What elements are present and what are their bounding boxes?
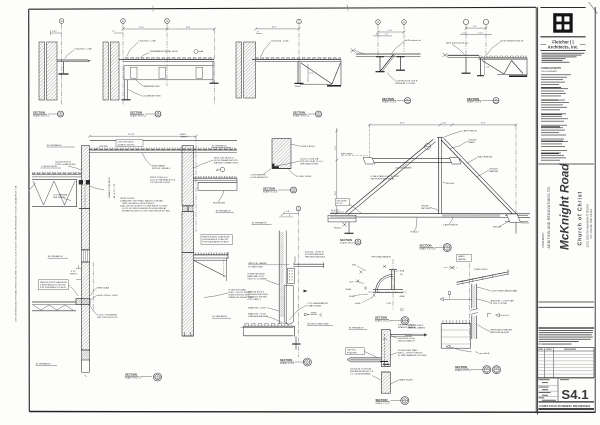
svg-text:7¼": 7¼" (385, 33, 389, 36)
svg-text:EL SEE PLAN: EL SEE PLAN (249, 266, 263, 269)
svg-text:SECTION: SECTION (382, 97, 394, 101)
X marks (360, 271, 363, 274)
dims (284, 212, 299, 214)
svg-text:SECTION: SECTION (467, 97, 479, 101)
svg-text:SECTION: SECTION (375, 316, 387, 320)
masonry wall left (tall) (81, 146, 89, 250)
svg-text:VERIFY: VERIFY (70, 274, 78, 276)
high roof deck corrugated (90, 148, 237, 150)
svg-text:SCALE: 1/2"=1'-0": SCALE: 1/2"=1'-0" (455, 369, 472, 372)
svg-text:RAFTER: RAFTER (458, 258, 467, 261)
svg-text:NOTE ℞ DETAILS: NOTE ℞ DETAILS (152, 167, 171, 170)
svg-text:PILASTER: PILASTER (347, 351, 357, 354)
svg-text:ANCHOR EA SIDE: ANCHOR EA SIDE (491, 331, 510, 334)
grid bubble C1 (297, 19, 302, 24)
svg-text:LATE PURLIN: LATE PURLIN (463, 129, 477, 132)
dim tick small (114, 32, 123, 34)
svg-text:SECTION: SECTION (293, 110, 305, 114)
svg-text:W21x44 BM: W21x44 BM (213, 202, 225, 204)
svg-text:O.C. (2) MIN EMBED: O.C. (2) MIN EMBED (350, 374, 371, 376)
bond beam pattern segment (81, 250, 89, 262)
svg-text:7¼": 7¼" (112, 30, 116, 33)
svg-text:EL PER ARCH: EL PER ARCH (216, 209, 231, 212)
beam end + column below (294, 326, 296, 336)
svg-text:dbl ℞ 5/16x4 - LLBO: dbl ℞ 5/16x4 - LLBO (98, 294, 118, 297)
grid bubble A1 (59, 19, 64, 24)
svg-text:W10x12: W10x12 (411, 231, 420, 233)
svg-text:BEAM BEYOND: BEAM BEYOND (144, 85, 160, 88)
svg-text:℞ VERT BARS AS OCCURS: ℞ VERT BARS AS OCCURS (398, 354, 427, 357)
roof deck (corrugated) (123, 57, 214, 59)
truss webs (482, 61, 504, 75)
svg-text:L6x4x5/16 - (LLB): L6x4x5/16 - (LLB) (271, 41, 289, 43)
wall continues down (182, 212, 194, 253)
left top chord (346, 140, 434, 213)
hanger stem (63, 62, 65, 73)
dim 8.5 verif (76, 268, 81, 270)
corbel bracket (194, 259, 227, 261)
beam stems (379, 56, 381, 71)
detail 13: window head/sill wall section (241, 206, 334, 366)
post W6x9 (297, 62, 299, 84)
svg-text:ST. LOUIS, MO 63124: ST. LOUIS, MO 63124 (589, 208, 593, 238)
roofing line (90, 139, 237, 141)
svg-text:EA. JOIST (4) PLCS: EA. JOIST (4) PLCS (98, 316, 118, 319)
corrugated canopy deck right (479, 56, 528, 58)
svg-text:1'-0": 1'-0" (286, 211, 291, 213)
horizontal tie member (368, 158, 461, 160)
wall segment (182, 253, 194, 337)
svg-text:BRNG: BRNG (469, 142, 476, 144)
boxed label remove slab edge (39, 280, 69, 290)
svg-text:STEEL DECK: STEEL DECK (474, 269, 488, 271)
title block frame (538, 7, 596, 415)
svg-text:S4.1: S4.1 (561, 387, 588, 402)
svg-text:℞ TYP: ℞ TYP (337, 202, 344, 205)
masonry wall W2 (103, 42, 108, 100)
boxed label remove slab (201, 235, 233, 245)
consultant listing lines (541, 74, 571, 160)
svg-text:5/16 GUSS: 5/16 GUSS (337, 200, 348, 202)
grid bubble E1 (463, 19, 468, 24)
svg-text:SECTION: SECTION (376, 398, 388, 402)
svg-text:13'-10": 13'-10" (128, 134, 135, 136)
svg-text:9'-0": 9'-0" (481, 123, 486, 125)
grid bubble B1 (121, 19, 126, 24)
bottom bond block (81, 350, 89, 360)
svg-text:SECTION: SECTION (455, 365, 467, 369)
svg-text:L6x4x5/16 - LLBO: L6x4x5/16 - LLBO (139, 41, 157, 43)
left end beam (328, 215, 356, 222)
break marks (471, 309, 478, 315)
anchor bolt dashed (384, 334, 386, 366)
svg-text:EL PER ARCH: EL PER ARCH (36, 362, 51, 365)
boxed gable rafter label (457, 254, 472, 261)
svg-text:℞ 5/16 TYPICAL: ℞ 5/16 TYPICAL (491, 302, 508, 305)
wall end (182, 335, 194, 337)
grid dashdot (92, 262, 94, 312)
detail 7: roof / wall section (tall left) (32, 134, 237, 250)
section flag 5A (220, 167, 225, 172)
svg-text:7¼": 7¼" (376, 33, 380, 36)
svg-text:(2) L6x4 JAMBS: (2) L6x4 JAMBS (396, 167, 412, 170)
svg-text:ELEVATION UNITS. DO NOT DISTUR: ELEVATION UNITS. DO NOT DISTURB GROUT BE… (122, 210, 171, 213)
deck line (356, 53, 421, 55)
ridge post W10x49 (438, 138, 440, 214)
svg-text:SPAN EL VARIES: SPAN EL VARIES (408, 327, 426, 330)
grid bubble D2 (402, 20, 407, 25)
detail 1: wall/angle section (33, 19, 92, 118)
right small flags (487, 313, 489, 317)
svg-text:SCALE: 3/4"=1'-0": SCALE: 3/4"=1'-0" (293, 114, 310, 117)
dim 13'-10 field verify (90, 135, 196, 137)
svg-text:SCALE: 3"=1'-0": SCALE: 3"=1'-0" (263, 190, 278, 193)
svg-text:FOR PLACEMENT OF dbl ℞: FOR PLACEMENT OF dbl ℞ (203, 241, 229, 244)
gusset left (363, 158, 375, 165)
svg-text:SCALE: 3/4"=1'-0": SCALE: 3/4"=1'-0" (130, 114, 147, 117)
detail 8: angle at existing building (251, 139, 324, 194)
existing floor left (32, 301, 76, 303)
svg-text:2'-0": 2'-0" (442, 123, 447, 125)
gusset right (450, 158, 462, 165)
svg-text:EXIST. BLDG: EXIST. BLDG (302, 146, 316, 148)
svg-text:COLUMN BEYOND: COLUMN BEYOND (142, 96, 162, 98)
arrow (304, 290, 308, 293)
X mark left (443, 53, 448, 57)
svg-text:MITER AT ∠ POINT: MITER AT ∠ POINT (396, 82, 416, 85)
masonry wall W1 (39, 42, 45, 100)
svg-text:VERT AND HORIZ: VERT AND HORIZ (300, 163, 319, 166)
svg-text:SHED: SHED (311, 313, 317, 315)
svg-text:9'-0": 9'-0" (400, 123, 405, 125)
detail 16: rake / gable edge (405, 244, 518, 374)
detail 14: purlin base plan detail (arc) (346, 255, 410, 324)
svg-text:NEW SLAB: NEW SLAB (98, 286, 110, 289)
svg-text:dbl ℞ behind col.: dbl ℞ behind col. (405, 39, 422, 42)
svg-text:EL PER ARCH: EL PER ARCH (48, 255, 63, 258)
detail 10: gable truss frame (328, 123, 530, 245)
svg-text:EL PER ARCH: EL PER ARCH (213, 315, 228, 318)
svg-text:#2 ROOF DECK: #2 ROOF DECK (41, 166, 58, 168)
architect address lines (542, 53, 585, 63)
svg-text:W10x49: W10x49 (446, 183, 455, 185)
CMU wall crenellated (442, 320, 470, 323)
svg-text:CMU FILL: CMU FILL (347, 350, 357, 352)
stiffeners (131, 67, 138, 78)
svg-text:TYP. EA. END OF BM.: TYP. EA. END OF BM. (150, 181, 171, 184)
svg-text:FOR PLACEMENT OF dbl ℞: FOR PLACEMENT OF dbl ℞ (40, 286, 66, 289)
grid bubble B2 (165, 19, 170, 24)
svg-text:w/ 5/8 DIA BOLTS: w/ 5/8 DIA BOLTS (251, 176, 269, 179)
top dim line (369, 124, 516, 126)
shelf angle beam (57, 59, 88, 61)
svg-text:PERMANENT METAL DECK: PERMANENT METAL DECK (150, 50, 179, 53)
wall bottom open end (80, 360, 82, 372)
tube post (471, 284, 473, 309)
svg-text:400A2: 400A2 (346, 288, 353, 291)
svg-text:W6x9: W6x9 (295, 86, 301, 88)
open web joist (32, 179, 77, 181)
svg-text:20GA EL NOTED: 20GA EL NOTED (118, 143, 135, 146)
roof slab (244, 323, 291, 326)
svg-text:SECTION: SECTION (420, 244, 432, 248)
masonry wall right (182, 146, 194, 206)
wall mullion lines (278, 231, 280, 324)
vert dim (484, 58, 486, 75)
svg-text:W10x49: W10x49 (493, 227, 502, 229)
left dim line (336, 128, 338, 214)
svg-text:BASE PLATE: BASE PLATE (400, 379, 414, 382)
svg-text:FOR CLARITY: FOR CLARITY (248, 298, 262, 301)
svg-text:W10x12: W10x12 (521, 222, 530, 224)
svg-text:(2) 3/4 DIA EXP. BOLTS: (2) 3/4 DIA EXP. BOLTS (500, 40, 524, 43)
diagonal kicker (381, 55, 394, 72)
svg-text:VERIFY: VERIFY (180, 136, 188, 138)
slab band left with arrow tip (347, 358, 381, 362)
grid bubble F1 (296, 206, 301, 211)
window frame lower (284, 286, 293, 325)
grid bubble E2 (483, 19, 488, 24)
connection angles dark (380, 361, 388, 363)
svg-text:HEADED CONC ANCH: HEADED CONC ANCH (108, 177, 111, 198)
svg-text:SECTION: SECTION (125, 372, 137, 376)
left flag arrow (440, 298, 444, 301)
svg-text:CONSTRUCTION/BID DRAWINGS: CONSTRUCTION/BID DRAWINGS (539, 404, 590, 408)
slab deck (194, 253, 229, 255)
svg-text:GALV BRIDGE: GALV BRIDGE (478, 155, 493, 158)
svg-text:PRE BID/SUB BUILT: PRE BID/SUB BUILT (305, 256, 326, 258)
detail 4: canopy bracket at wall (236, 19, 341, 117)
edge beam box (124, 65, 213, 67)
eave strut bottom (330, 213, 530, 215)
svg-text:RAFTER: RAFTER (490, 170, 499, 173)
svg-text:Church of Christ: Church of Christ (578, 191, 584, 246)
svg-text:GROUT 2 COURSES: GROUT 2 COURSES (248, 278, 268, 280)
detail 5: beam splice section (351, 20, 422, 104)
dim 3'-0 (123, 28, 167, 30)
svg-text:SEE PURLIN BRG DETAIL: SEE PURLIN BRG DETAIL (371, 178, 396, 181)
svg-text:SECTION: SECTION (263, 186, 275, 190)
svg-text:#2 ROOF DECK: #2 ROOF DECK (118, 142, 135, 144)
detail 11: lower left wall / floor connection (32, 250, 162, 381)
svg-text:STAGGER EA SIDE: STAGGER EA SIDE (248, 315, 268, 318)
hatched existing wall block (272, 139, 291, 169)
dim 1'-0 (51, 32, 62, 34)
svg-text:SCALE: 1"=1'-0": SCALE: 1"=1'-0" (280, 362, 295, 365)
dash-dot axis (469, 263, 471, 340)
svg-text:SECTION: SECTION (33, 110, 45, 114)
svg-text:8'-0": 8'-0" (272, 27, 277, 29)
svg-text:1999 JOHNS McKNIGHT ROAD CHURC: 1999 JOHNS McKNIGHT ROAD CHURCH S41.DWG … (15, 185, 18, 322)
detail 6: cantilever truss section (443, 19, 528, 103)
column beyond at wall (124, 80, 126, 100)
svg-text:BEYOND: BEYOND (422, 208, 432, 210)
wall below (81, 262, 89, 350)
svg-text:SCALE: 3/4"=1'-0": SCALE: 3/4"=1'-0" (33, 114, 50, 117)
svg-text:RAFT BRNG: RAFT BRNG (341, 152, 353, 155)
svg-text:EL PER ARCH: EL PER ARCH (252, 222, 267, 225)
grid bubble D1 (376, 20, 381, 25)
dim 1'-0 (378, 31, 404, 33)
bottom flag (446, 345, 450, 348)
svg-text:EL PER ARCH: EL PER ARCH (349, 327, 364, 330)
grid line (dash-dot) (61, 24, 63, 105)
svg-text:BRICK EL VARIES: BRICK EL VARIES (249, 262, 268, 265)
X brace mark left (351, 49, 356, 53)
svg-text:cap weld ℞: cap weld ℞ (479, 352, 490, 355)
masonry wall W3 (236, 42, 242, 98)
svg-text:SECTION: SECTION (130, 110, 142, 114)
boxed cmu label (346, 348, 365, 355)
svg-text:SCALE: 1/2"=1'-0": SCALE: 1/2"=1'-0" (420, 248, 437, 251)
window frame upper (288, 268, 295, 283)
svg-text:SCALE: 3/8"=1'-0": SCALE: 3/8"=1'-0" (340, 242, 357, 245)
left connection (343, 223, 347, 227)
detail 2: canopy deck at wall (103, 19, 219, 118)
svg-text:CONSULTANTS: CONSULTANTS (541, 66, 561, 70)
svg-text:SCALE: 1"=1'-0": SCALE: 1"=1'-0" (382, 101, 397, 104)
top border fold ticks (152, 6, 154, 12)
svg-text:SCALE: 1/2"=1'-0": SCALE: 1/2"=1'-0" (375, 320, 392, 323)
svg-text:ADDITION AND RENOVATIONS TO: ADDITION AND RENOVATIONS TO (547, 187, 551, 249)
slab band (76, 299, 90, 305)
pilaster wall (381, 330, 390, 367)
brace diagonals (301, 63, 332, 84)
svg-text:SECTION: SECTION (340, 238, 352, 242)
vertical member (391, 270, 393, 290)
quarter arc (376, 275, 394, 293)
top right angle beam (293, 263, 324, 265)
svg-text:1'-0": 1'-0" (388, 30, 393, 32)
svg-text:dbl ℞ behind (2nd) col.: dbl ℞ behind (2nd) col. (446, 42, 469, 45)
grid lines (122, 24, 124, 105)
svg-text:Architects, Inc.: Architects, Inc. (548, 45, 579, 50)
svg-text:PROJECT:: PROJECT: (541, 232, 545, 247)
svg-text:DIA (LLH) ANCH: DIA (LLH) ANCH (398, 340, 415, 343)
svg-text:CROWN: CROWN (99, 146, 108, 148)
lower roof deck right (194, 176, 238, 178)
deck to the right (390, 333, 412, 335)
svg-text:SCALE: 1"=1'-0": SCALE: 1"=1'-0" (467, 101, 482, 104)
svg-text:W10x12: W10x12 (334, 227, 342, 229)
boxed label roof deck (116, 140, 143, 147)
svg-text:ROOF EL SEE PLAN: ROOF EL SEE PLAN (308, 323, 329, 326)
sheet info block (557, 378, 559, 402)
svg-text:400A: 400A (400, 269, 405, 272)
embed plates in wall (79, 180, 83, 185)
beam flange horizontal (373, 289, 403, 291)
svg-text:4": 4" (257, 31, 259, 33)
copyright note lines (539, 330, 593, 345)
right top chord (441, 140, 516, 217)
column at free end (210, 82, 219, 84)
svg-text:PUR: PUR (387, 303, 392, 305)
svg-text:LATE PURLIN: LATE PURLIN (444, 223, 458, 226)
svg-text:8'-0": 8'-0" (186, 27, 191, 29)
svg-text:McKnight Road: McKnight Road (558, 163, 572, 250)
flag arrows right (305, 313, 309, 316)
detail 12: slab connection at right wall (182, 235, 254, 336)
top-right page curl mark (589, 2, 598, 14)
beam stems (465, 58, 467, 74)
deck left (448, 54, 480, 56)
svg-text:OPTIONAL BASE ℞: OPTIONAL BASE ℞ (371, 255, 391, 258)
vert dim (307, 64, 309, 82)
detail 15: pilaster / deck bearing (346, 325, 427, 405)
bond beam blocks (182, 206, 187, 212)
svg-text:℞ 5/8x7 GUSS: ℞ 5/8x7 GUSS (297, 175, 312, 178)
svg-text:1'-0¼: 1'-0¼ (52, 30, 58, 33)
dim 1'-0 (466, 27, 486, 29)
svg-text:400A+: 400A+ (355, 302, 362, 305)
svg-text:400A: 400A (400, 295, 405, 298)
svg-text:CIVIL ENGINEER: CIVIL ENGINEER (541, 71, 557, 73)
svg-text:EL PER ARCH: EL PER ARCH (47, 144, 62, 147)
angle mark dark (272, 164, 279, 169)
dim 8'-0 (167, 28, 215, 30)
svg-text:SHADOW - CONT: SHADOW - CONT (248, 306, 267, 309)
svg-text:1'-0": 1'-0" (473, 26, 478, 28)
svg-text:EA SIDE CONNECTION: EA SIDE CONNECTION (214, 162, 238, 165)
svg-text:CONT STEEL ANGLE BAR: CONT STEEL ANGLE BAR (491, 289, 518, 292)
right connection (505, 215, 528, 217)
svg-text:CONT w/ ANCHORS: CONT w/ ANCHORS (55, 163, 76, 166)
section flag circle (425, 144, 431, 150)
svg-text:L6x4x5/16 - LLBO: L6x4x5/16 - LLBO (75, 49, 93, 51)
weld symbol circle (194, 50, 198, 54)
svg-text:GABLE: GABLE (458, 255, 465, 258)
svg-text:SCALE: 1"=1'-0": SCALE: 1"=1'-0" (376, 402, 391, 405)
canopy deck corrugated (256, 57, 341, 59)
detail 7 right wall and beam pocket (182, 137, 238, 253)
svg-text:4 EACH SIDE: 4 EACH SIDE (308, 305, 322, 308)
svg-text:SECTION: SECTION (280, 358, 292, 362)
beam W21x44 (198, 181, 237, 183)
dim line (256, 28, 299, 30)
svg-text:AT 16 O.C. TYP: AT 16 O.C. TYP (113, 183, 116, 198)
svg-text:SCALE: 3/4"=1'-0": SCALE: 3/4"=1'-0" (125, 376, 142, 379)
revision table (538, 348, 594, 378)
boxed gusset label (336, 199, 350, 206)
svg-text:EL PER ARCH: EL PER ARCH (212, 144, 227, 147)
left border pencil mark (28, 183, 35, 191)
architect logo (2x2 white squares on black) (553, 13, 573, 33)
